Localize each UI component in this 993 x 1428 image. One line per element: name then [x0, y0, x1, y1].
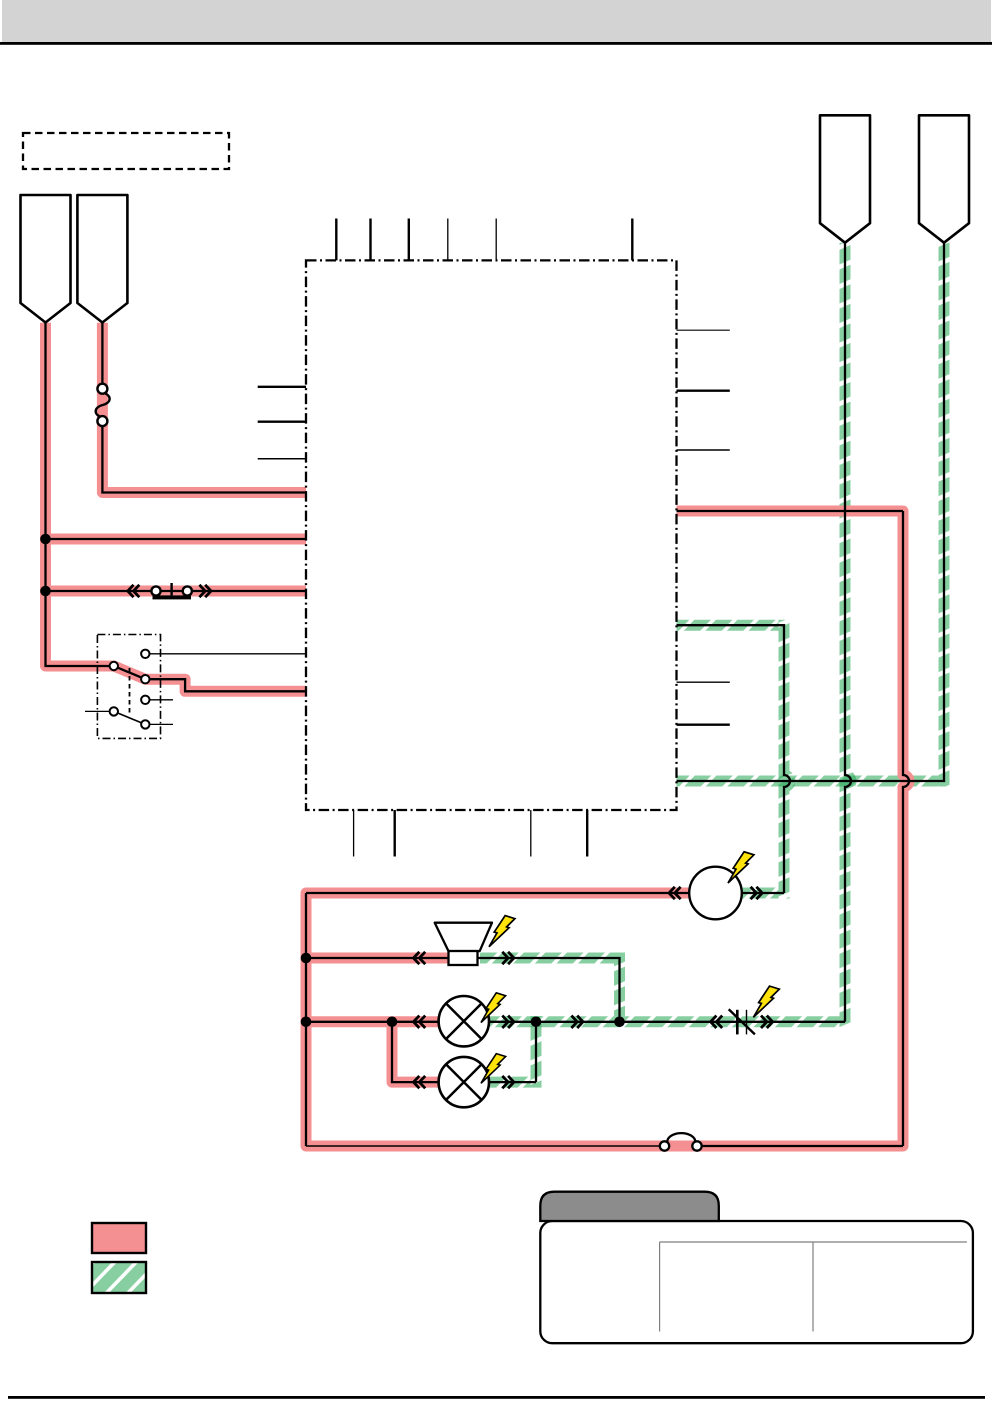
- bottom pin 3: [530, 810, 532, 857]
- left pin 3: [258, 458, 306, 460]
- green wire band: horn feed horizontal from control unit: [677, 620, 779, 631]
- bottom rule: [8, 1396, 985, 1399]
- wire line: bottom right segment: [697, 1145, 903, 1147]
- wire line: horn row red part: [306, 892, 690, 894]
- green wire band: speaker return vertical: [614, 953, 625, 1017]
- lamp1 bolt: [481, 993, 506, 1023]
- flag L1: [21, 195, 71, 323]
- wire line: lamp2 green return up: [535, 1022, 537, 1082]
- wire line: control unit output to right vertical with hop: [677, 510, 904, 512]
- red wire band: control unit output loop to horn: [306, 511, 909, 1146]
- lamp2 chevrons right: [502, 1076, 514, 1088]
- green wire band: lamp bus horizontal: [490, 1016, 840, 1027]
- speaker chevrons left: [414, 952, 426, 964]
- wire line: switch output to control unit: [145, 679, 306, 691]
- right pin 5: [677, 724, 730, 726]
- splice bolt: [753, 986, 779, 1017]
- wire line: flag R2 vertical and row y781: [677, 243, 945, 781]
- red wire band: flag L2 through fuse into control unit: [102, 323, 306, 493]
- inline connector circle left: [151, 586, 160, 595]
- switch pole2 left stub: [85, 710, 114, 712]
- top pin 6: [631, 219, 633, 261]
- splice chevrons left: [711, 1016, 723, 1028]
- green wire band: horn right horizontal: [740, 888, 779, 899]
- horn bolt: [728, 852, 754, 883]
- green wire band: lamp2 return horizontal: [490, 1077, 531, 1088]
- junction dot speaker return: [614, 1017, 625, 1028]
- wire line: speaker green to corner down: [476, 958, 620, 1022]
- junction dot lamp row left: [301, 1017, 312, 1028]
- bottom pin 1: [353, 810, 355, 857]
- junction dot lamp2 branch: [387, 1017, 398, 1028]
- switch enclosure: [97, 635, 160, 739]
- right pin 1: [677, 329, 730, 331]
- switch contact line to unit: [145, 653, 306, 655]
- wire line: green horn vertical with hop: [677, 625, 791, 893]
- speaker horn trapezoid: [435, 923, 492, 951]
- junction dot row539: [40, 534, 51, 545]
- inline connector bar: [153, 595, 192, 599]
- left pin 2: [258, 421, 306, 423]
- junction dot row591: [40, 586, 51, 597]
- switch contact circle top: [141, 650, 149, 658]
- top pin 3: [408, 219, 410, 261]
- folder body: [540, 1221, 973, 1343]
- green wire band: speaker return horizontal: [480, 953, 614, 964]
- red wire band: lamp2 branch: [392, 1022, 440, 1082]
- lamp row mid chevrons right: [571, 1016, 583, 1028]
- junction dot speaker row: [301, 953, 312, 964]
- red wire band: branch row y539: [46, 534, 307, 545]
- wire line: flag L2 to fuse: [101, 323, 103, 390]
- flag L2: [77, 195, 127, 323]
- green wire band: flag R2 horizontal to control unit: [677, 776, 939, 787]
- speaker bolt: [489, 916, 515, 947]
- bottom pin 4: [586, 810, 588, 857]
- right pin 3: [677, 449, 730, 451]
- bottom connector circle left: [660, 1141, 669, 1150]
- left pin 1: [258, 386, 306, 388]
- wire line: row y591: [46, 590, 307, 592]
- switch contact circle out: [141, 675, 149, 683]
- switch contact circle p2common: [110, 707, 118, 715]
- green wire band: flag R1 vertical with hop: [845, 243, 851, 1028]
- wire line: flag R1 vertical with hop: [845, 243, 851, 1022]
- table line left: [659, 1242, 661, 1332]
- top pin 5: [495, 219, 497, 261]
- lamp 1: [439, 996, 489, 1046]
- green wire band: lamp2 return vertical: [531, 1016, 542, 1087]
- green wire band: flag R2 vertical: [939, 243, 950, 787]
- header band: [2, 0, 991, 42]
- speaker body rect: [449, 951, 478, 965]
- speaker chevrons right: [502, 952, 514, 964]
- header rule: [0, 42, 992, 45]
- dashed label box: [23, 133, 229, 169]
- lamp 2: [439, 1057, 489, 1107]
- right pin 2: [677, 390, 730, 392]
- wire line: row y539: [46, 538, 307, 540]
- top pin 2: [369, 219, 371, 261]
- horn chevrons right: [751, 887, 763, 899]
- inline connector circle right: [183, 586, 192, 595]
- inline connector tick: [170, 583, 172, 595]
- lamp1 chevrons right: [502, 1016, 514, 1028]
- switch contact circle p2a: [141, 696, 149, 704]
- wire line: flag L1 to switch: [46, 323, 114, 666]
- top pin 4: [447, 219, 449, 261]
- red wire band: flag L1 down through switch into control unit: [46, 323, 307, 692]
- wire line: lamp row: [306, 1021, 845, 1023]
- splice symbol thin bar: [746, 1010, 748, 1035]
- wire line: switch blade 1: [114, 666, 146, 679]
- flag R1: [820, 115, 870, 242]
- legend red box: [92, 1223, 146, 1253]
- lamp2 bolt: [481, 1054, 506, 1084]
- wire line: right vertical down with hop over green: [903, 511, 909, 1146]
- table line middle: [812, 1242, 814, 1332]
- wire line: speaker row: [306, 957, 450, 959]
- folder tab: [540, 1192, 719, 1221]
- red wire band: branch row y591: [46, 586, 307, 597]
- bottom pin 2: [394, 810, 396, 857]
- wire line: lamp2 row: [392, 1022, 536, 1082]
- fuse squiggle: [96, 393, 110, 418]
- bottom connector circle right: [692, 1141, 701, 1150]
- right pin 4: [677, 681, 730, 683]
- switch linkage dashed: [129, 668, 131, 714]
- fuse terminal top: [97, 384, 107, 394]
- wire line: fuse to control unit: [102, 420, 306, 493]
- wire line: horn to green corner: [742, 892, 785, 894]
- connector chevrons right row y591: [199, 585, 211, 597]
- legend green box: [92, 1262, 146, 1293]
- top pin 1: [335, 219, 337, 261]
- horn circle: [689, 867, 742, 920]
- wire line: bottom left thin segment: [306, 1145, 665, 1147]
- lamp1 chevrons left: [414, 1016, 426, 1028]
- control unit box: [306, 260, 677, 810]
- switch contact circle p2b: [141, 720, 149, 728]
- switch pole2 stub b: [145, 723, 173, 725]
- horn chevrons left: [669, 887, 681, 899]
- lamp2 chevrons left: [414, 1076, 426, 1088]
- green wire band: horn feed vertical with hop: [784, 620, 790, 899]
- bottom connector arc: [667, 1133, 695, 1142]
- fuse terminal bottom: [97, 416, 107, 426]
- splice chevrons right: [761, 1016, 773, 1028]
- wire line: left loop vertical: [305, 893, 307, 1146]
- switch pole2 blade: [114, 711, 146, 724]
- switch pole2 stub a: [145, 699, 173, 701]
- splice symbol thick bar: [736, 1010, 739, 1035]
- connector chevrons left row y591: [128, 585, 140, 597]
- red wire band: lamp1 branch: [306, 1016, 440, 1027]
- switch contact circle common: [110, 662, 118, 670]
- junction dot lamp2 return: [531, 1017, 542, 1028]
- splice symbol diagonal: [729, 1009, 755, 1034]
- flag R2: [919, 115, 969, 242]
- red wire band: speaker branch: [306, 953, 452, 964]
- table line top: [660, 1241, 967, 1243]
